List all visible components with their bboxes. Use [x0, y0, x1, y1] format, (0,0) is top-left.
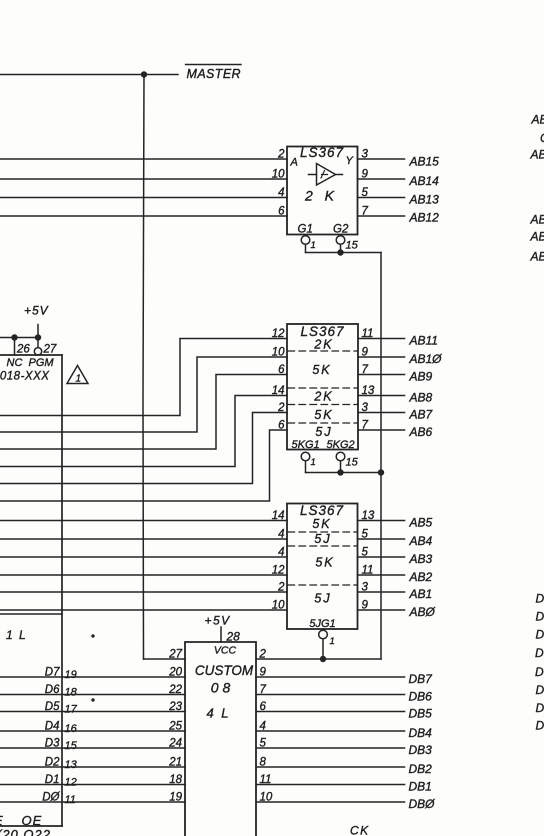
wire AB3 output — [358, 556, 405, 558]
wire A11 staircase to U2 pin 12 — [0, 339, 287, 416]
wire A0 input to U3 pin 10 — [0, 609, 287, 611]
svg-text:5J: 5J — [314, 532, 331, 546]
U2 pin 15 enable bubble — [336, 452, 345, 461]
junction U3 enable — [320, 656, 326, 662]
wire AB1 output — [358, 591, 405, 593]
wire A1 input to U3 pin 2 — [0, 591, 287, 593]
svg-text:1: 1 — [330, 636, 335, 647]
IC U2 LS367 body — [287, 324, 358, 450]
svg-text:6018-XXX: 6018-XXX — [0, 371, 50, 383]
U4 left pin numbers 27,20,22,23,25,24,21,18,19 — [168, 649, 182, 804]
svg-text:AB: AB — [530, 230, 544, 244]
wire A10 staircase to U2 pin 10 — [0, 357, 287, 432]
svg-text:15: 15 — [346, 240, 359, 252]
svg-text:5KG1: 5KG1 — [292, 439, 320, 451]
svg-text:1: 1 — [76, 374, 82, 385]
svg-text:DB6: DB6 — [409, 690, 433, 704]
wire A15 input to U1 pin 2 — [0, 158, 287, 160]
U1 pin 15 enable bubble — [336, 236, 345, 245]
svg-text:AB1Ø: AB1Ø — [409, 352, 443, 366]
svg-text:5K: 5K — [315, 556, 334, 570]
wire A8 staircase to U2 pin 14 — [0, 396, 287, 467]
wire D3 ROM to U4 — [0, 747, 185, 749]
wire D6 ROM to U4 — [0, 694, 185, 696]
svg-text:12: 12 — [65, 777, 77, 789]
svg-text:14: 14 — [272, 510, 285, 522]
wire ROM pin 27 stub — [37, 338, 39, 348]
svg-text:5K: 5K — [312, 363, 331, 377]
wire MASTER into U4 pin 27 — [144, 658, 186, 660]
U1 right pin numbers 3,9,5,7 — [362, 149, 369, 218]
U2 section divider dashed 3 — [288, 404, 357, 406]
svg-text:AB7: AB7 — [409, 408, 434, 422]
svg-text:D: D — [535, 646, 544, 660]
svg-text:NC: NC — [7, 357, 23, 369]
wire A2 input to U3 pin 12 — [0, 574, 287, 576]
wire AB7 output — [358, 412, 405, 414]
wire U3 pin1 stub — [322, 639, 324, 659]
svg-text:12: 12 — [272, 565, 285, 577]
svg-text:18: 18 — [65, 687, 78, 699]
svg-text:DB7: DB7 — [409, 672, 434, 686]
svg-text:AB1: AB1 — [409, 587, 433, 601]
junction +5V pin27 — [35, 334, 41, 340]
svg-text:1: 1 — [311, 457, 316, 468]
svg-text:6: 6 — [278, 420, 285, 432]
svg-text:DBØ: DBØ — [409, 797, 436, 811]
cut net labels D column (right edge) — [535, 592, 544, 733]
svg-text:Y: Y — [346, 155, 354, 167]
svg-text:AB9: AB9 — [409, 370, 433, 384]
svg-text:2: 2 — [277, 582, 285, 594]
svg-text:D2: D2 — [45, 757, 60, 769]
svg-text:DB3: DB3 — [409, 743, 433, 757]
svg-text:5K: 5K — [312, 517, 331, 531]
svg-text:CK: CK — [350, 824, 370, 836]
svg-text:D1: D1 — [45, 774, 60, 786]
wire ROM pin 26 stub — [14, 338, 16, 356]
svg-text:MASTER: MASTER — [187, 67, 242, 81]
svg-text:4: 4 — [278, 529, 284, 541]
svg-text:08: 08 — [211, 680, 235, 696]
svg-text:D: D — [536, 628, 544, 642]
net labels AB5..AB0 — [409, 516, 436, 620]
svg-text:VCC: VCC — [214, 645, 237, 657]
svg-text:DB1: DB1 — [409, 780, 432, 794]
svg-text:10: 10 — [272, 600, 285, 612]
junction MASTER node — [141, 71, 147, 77]
svg-text:ABØ: ABØ — [409, 605, 436, 619]
wire D7 ROM to U4 — [0, 676, 185, 678]
wire A12 input to U1 pin 6 — [0, 215, 287, 217]
wire enable bus vertical — [380, 253, 382, 660]
wire D0 ROM to U4 — [0, 801, 185, 803]
wire DB1 output — [256, 784, 405, 786]
svg-text:2: 2 — [277, 402, 285, 414]
wire AB9 output — [358, 374, 405, 376]
svg-text:1: 1 — [311, 240, 316, 251]
svg-text:4: 4 — [278, 547, 284, 559]
wire MASTER vertical to U4 pin 27 — [143, 75, 144, 660]
wire A5 input to U3 pin 14 — [0, 520, 287, 522]
svg-text:15: 15 — [65, 740, 78, 752]
svg-text:D7: D7 — [45, 667, 60, 679]
U2 section divider dashed 1 — [288, 350, 357, 352]
U4 right pin numbers 2,9,7,6,4,5,8,11,10 — [259, 649, 273, 804]
net labels AB11..AB6 — [409, 334, 443, 440]
svg-text:(20 O22: (20 O22 — [0, 827, 51, 836]
svg-text:4 L: 4 L — [206, 706, 230, 721]
wire DB0 output — [256, 801, 405, 803]
svg-text:AB: AB — [531, 113, 544, 127]
U1 left pin numbers 2,10,4,6 — [272, 149, 285, 218]
wire AB10 output — [358, 356, 405, 358]
wire U2 pin1 stub — [305, 461, 307, 473]
wire AB8 output — [358, 395, 405, 397]
svg-text:13: 13 — [65, 759, 78, 771]
svg-text:LS367: LS367 — [300, 503, 344, 518]
svg-text:D: D — [536, 683, 544, 697]
svg-text:+5V: +5V — [24, 304, 49, 318]
U3 right pin numbers 13,5,5,11,3,9 — [362, 510, 375, 612]
wire AB5 output — [358, 520, 405, 522]
wire A9 staircase to U2 pin 6 — [0, 375, 287, 450]
svg-text:AB5: AB5 — [409, 516, 433, 530]
svg-text:AB11: AB11 — [409, 334, 438, 348]
junction +5V pin26 — [11, 334, 17, 340]
svg-text:OE: OE — [22, 813, 43, 828]
svg-text:A: A — [290, 157, 298, 169]
svg-text:2: 2 — [277, 149, 285, 161]
wire A3 input to U3 pin 4b — [0, 556, 287, 558]
svg-text:16: 16 — [65, 723, 78, 735]
IC ROM 6018-XXX body outline — [0, 355, 62, 826]
svg-text:5K: 5K — [314, 408, 333, 422]
wire AB12 output — [358, 215, 405, 217]
svg-text:5J: 5J — [314, 592, 331, 606]
svg-text:D: D — [536, 610, 544, 624]
svg-text:DB4: DB4 — [409, 726, 433, 740]
stray dot b — [91, 698, 94, 701]
wire D2 ROM to U4 — [0, 766, 185, 768]
wire DB2 output — [256, 766, 405, 768]
wire D5 ROM to U4 — [0, 711, 185, 713]
svg-text:D: D — [536, 701, 544, 715]
wire MASTER horizontal — [0, 74, 178, 76]
svg-text:10: 10 — [272, 347, 285, 359]
svg-text:17: 17 — [65, 704, 78, 716]
wire +5V rail — [0, 337, 38, 339]
net label MASTER (overbar) — [186, 65, 242, 82]
U2 right pin numbers 11,9,7,13,3,7 — [362, 328, 375, 432]
ROM pin 27 bubble — [34, 348, 41, 355]
svg-text:D3: D3 — [45, 738, 60, 750]
U2 section divider dashed 2 — [288, 387, 357, 389]
net labels AB15,AB14,AB13,AB12 — [409, 155, 440, 225]
U3 section divider dashed 1 — [288, 531, 357, 533]
svg-text:2: 2 — [259, 649, 267, 661]
svg-text:10: 10 — [272, 169, 285, 181]
U3 pin 1 enable bubble — [319, 630, 328, 639]
wire AB14 output — [358, 178, 405, 180]
svg-text:D: D — [536, 719, 544, 733]
wire AB6 output — [358, 429, 405, 431]
svg-text:D4: D4 — [45, 721, 60, 733]
wire DB4 output — [256, 730, 405, 732]
wire AB11 output — [358, 338, 405, 340]
svg-text:5J: 5J — [315, 425, 332, 439]
svg-text:AB8: AB8 — [409, 391, 433, 405]
IC U4 CUSTOM 08 body — [185, 642, 256, 836]
IC U3 LS367 body — [287, 504, 358, 630]
svg-text:2 K: 2 K — [304, 188, 338, 204]
wire A4 input to U3 pin 4 — [0, 538, 287, 540]
svg-text:5JG1: 5JG1 — [309, 618, 335, 630]
svg-text:6: 6 — [278, 206, 285, 218]
svg-text:+5V: +5V — [205, 614, 231, 628]
svg-text:G2: G2 — [333, 224, 349, 236]
svg-text:2K: 2K — [313, 338, 333, 352]
svg-text:AB14: AB14 — [409, 174, 440, 188]
svg-text:5KG2: 5KG2 — [327, 439, 355, 451]
svg-text:11: 11 — [65, 794, 76, 806]
svg-text:AB: AB — [530, 250, 544, 264]
svg-text:4: 4 — [278, 187, 284, 199]
U1 enable labels G1 G2 — [298, 224, 349, 236]
svg-text:6: 6 — [278, 364, 285, 376]
wire AB15 output — [358, 158, 405, 160]
wire DB6 output — [256, 694, 405, 696]
U2 section divider dashed 4 — [288, 422, 357, 424]
junction U1 enable — [337, 249, 343, 255]
svg-text:DB5: DB5 — [409, 707, 433, 721]
wire A14 input to U1 pin 10 — [0, 178, 287, 180]
svg-text:AB3: AB3 — [409, 552, 433, 566]
U2 enable labels 5KG1 5KG2 — [292, 439, 355, 451]
ROM divider line (1L section) — [0, 613, 62, 615]
svg-text:LS367: LS367 — [300, 145, 344, 160]
svg-text:AB4: AB4 — [409, 534, 433, 548]
IC U1 LS367 (2K) body — [287, 147, 358, 235]
wire DB7 output — [256, 676, 405, 678]
wire U2 enable horizontal — [306, 472, 382, 474]
svg-text:D5: D5 — [45, 701, 60, 713]
svg-text:AB13: AB13 — [409, 193, 440, 207]
stray dot a — [91, 634, 94, 637]
wire D4 ROM to U4 — [0, 730, 185, 732]
net labels DB7..DB0 — [409, 672, 436, 811]
wire A13 input to U1 pin 4 — [0, 197, 287, 199]
svg-text:2K: 2K — [313, 390, 333, 404]
U1 buffer triangle symbol — [309, 164, 343, 186]
svg-text:AB6: AB6 — [409, 425, 433, 439]
svg-text:E: E — [0, 813, 3, 828]
svg-text:PGM: PGM — [29, 357, 55, 369]
wire DB5 output — [256, 711, 405, 713]
U3 section divider dashed 2 — [288, 545, 357, 547]
junction U2 enable a — [337, 469, 343, 475]
svg-text:C: C — [540, 131, 544, 145]
wire AB4 output — [358, 538, 405, 540]
svg-text:G1: G1 — [298, 224, 313, 236]
svg-text:12: 12 — [272, 328, 285, 340]
wire U1 enable horizontal — [306, 252, 382, 254]
svg-text:AB2: AB2 — [409, 570, 433, 584]
svg-text:27: 27 — [168, 649, 182, 661]
wire AB2 output — [358, 574, 405, 576]
svg-text:AB12: AB12 — [409, 211, 440, 225]
U2 pin 1 enable bubble — [301, 452, 310, 461]
U3 left pin numbers 14,4,4,12,2,10 — [272, 510, 285, 612]
ROM data pin numbers 19,18,17,16,15,13,12,11 — [65, 669, 78, 806]
svg-text:26: 26 — [16, 344, 30, 356]
svg-text:19: 19 — [65, 669, 77, 681]
ROM data pin names D7..D0 — [42, 667, 60, 804]
svg-text:AB: AB — [530, 148, 544, 162]
note triangle 1 — [67, 366, 88, 385]
cut net labels AB column (right edge) — [530, 113, 544, 264]
wire DB3 output — [256, 747, 405, 749]
svg-text:14: 14 — [272, 385, 285, 397]
svg-text:DØ: DØ — [42, 792, 60, 804]
wire AB0 output — [358, 609, 405, 611]
wire +5V drop — [37, 325, 39, 338]
U2 left pin numbers 12,10,6,14,2,6 — [272, 328, 285, 432]
U3 section divider dashed 3 — [288, 584, 357, 586]
svg-text:CUSTOM: CUSTOM — [195, 663, 254, 678]
svg-text:15: 15 — [346, 457, 359, 469]
svg-text:1 L: 1 L — [6, 628, 27, 642]
wire U1 pin15 stub — [340, 244, 342, 252]
svg-text:AB15: AB15 — [409, 155, 440, 169]
U1 pin 1 enable bubble — [301, 236, 310, 245]
svg-text:AB: AB — [530, 213, 544, 227]
wire enable to U4 pin 2 — [256, 658, 381, 660]
svg-text:D: D — [535, 665, 544, 679]
svg-text:27: 27 — [43, 344, 57, 356]
wire U1 pin1 stub — [305, 244, 307, 252]
junction U2 enable b — [378, 469, 384, 475]
wire A6 staircase to U2 pin 6b — [0, 430, 287, 501]
wire U2 pin15 stub — [340, 461, 342, 473]
svg-text:D6: D6 — [45, 684, 60, 696]
wire A7 staircase to U2 pin 2 — [0, 413, 287, 484]
svg-text:DB2: DB2 — [409, 762, 433, 776]
wire AB13 output — [358, 197, 405, 199]
wire D1 ROM to U4 — [0, 784, 185, 786]
wire U4 pin 28 VCC stub — [220, 627, 222, 642]
svg-text:D: D — [536, 592, 544, 606]
